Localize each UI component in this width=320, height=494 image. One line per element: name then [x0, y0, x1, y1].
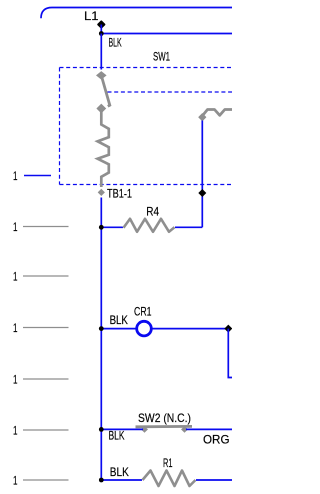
junction dot at R4 left [99, 225, 104, 230]
svg-text:SW1: SW1 [153, 50, 170, 64]
resistor R1 [143, 471, 196, 487]
svg-text:1: 1 [13, 423, 18, 437]
wire: right branch vertical x=202 [201, 121, 203, 228]
wire: drop from CR1 right and exit [228, 329, 232, 378]
svg-text:BLK: BLK [110, 465, 129, 479]
coil of SW1 (solenoid) [97, 104, 109, 195]
SW1 second dashed line [108, 91, 233, 93]
switch SW1 pole arm [97, 72, 110, 107]
svg-text:TB1-1: TB1-1 [107, 187, 132, 201]
wire: SW2 row left [101, 428, 143, 430]
wire: vertical drop to SW1 [100, 34, 102, 70]
svg-text:BLK: BLK [110, 313, 128, 327]
svg-text:CR1: CR1 [134, 305, 152, 319]
wire: vertical below TB1-1 [100, 198, 102, 481]
node stub 1 (blue) [24, 175, 51, 177]
resistor R4 [124, 219, 175, 232]
node stub 6 [23, 429, 69, 431]
node stub 7 [23, 479, 69, 481]
relay coil CR1 [137, 321, 152, 336]
svg-text:1: 1 [13, 269, 18, 283]
switch SW2 terminal arrows [141, 426, 148, 433]
junction diamond CR1 right [224, 325, 232, 333]
wire: horizontal bus y=33 [101, 33, 232, 35]
svg-text:1: 1 [13, 220, 18, 234]
node stub 2 [23, 226, 69, 228]
svg-text:BLK: BLK [109, 36, 122, 50]
svg-text:SW2 (N.C.): SW2 (N.C.) [138, 411, 191, 425]
wire: R1 right lead [196, 479, 232, 481]
junction dot R1 row [99, 478, 104, 483]
svg-text:1: 1 [13, 169, 18, 183]
coil (top right, horizontal) [199, 110, 232, 121]
svg-text:BLK: BLK [109, 429, 125, 443]
svg-text:R1: R1 [163, 456, 173, 470]
SW1 enclosure dashed box [60, 68, 233, 185]
node stub 4 [23, 327, 69, 329]
wire: top feeder with rounded corner [41, 8, 232, 19]
wire: R4 right lead [175, 226, 202, 228]
svg-text:ORG: ORG [203, 433, 230, 447]
node stub 5 [23, 378, 69, 380]
junction dot CR1 row [99, 326, 104, 331]
junction dot at L1 branch [99, 31, 104, 36]
svg-text:1: 1 [13, 473, 18, 487]
wire: SW2 row right [186, 428, 232, 430]
svg-text:1: 1 [13, 321, 18, 335]
terminal dot L1 [98, 21, 105, 28]
node stub 3 [23, 275, 69, 277]
svg-text:1: 1 [13, 372, 18, 386]
wire: R4 left lead [101, 226, 123, 228]
wire: R1 left lead [101, 479, 142, 481]
junction dot SW2 row [99, 427, 104, 432]
switch SW2 bar [136, 425, 193, 428]
svg-text:R4: R4 [146, 205, 159, 219]
wire: L1 stub [100, 25, 102, 34]
wire: CR1 row [101, 328, 228, 330]
junction diamond on dashed edge [198, 189, 206, 197]
svg-text:L1: L1 [84, 11, 99, 23]
